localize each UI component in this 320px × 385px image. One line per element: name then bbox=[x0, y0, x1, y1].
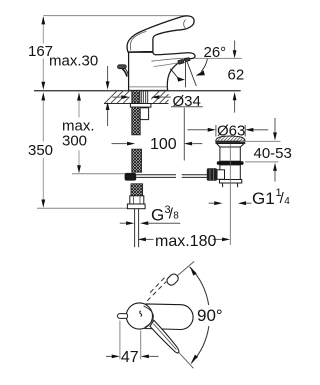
deck underside line bbox=[104, 103, 169, 105]
waste lower body bbox=[220, 165, 240, 180]
pop-up rod guide block bbox=[140, 108, 148, 120]
47 extension lines bbox=[119, 321, 121, 360]
svg-text:G: G bbox=[151, 206, 164, 225]
hose end nut bbox=[127, 204, 145, 209]
flexible hose lower segment bbox=[131, 184, 143, 196]
drain centerline bbox=[229, 144, 231, 245]
max.300 dimension line with arrows bbox=[78, 101, 80, 118]
spout interior highlight lines bbox=[152, 58, 188, 61]
26 deg arc left segment with arrowhead bbox=[170, 69, 177, 78]
max.180 dimension line with arrows bbox=[138, 238, 146, 242]
lever inner highlight bbox=[130, 31, 146, 50]
G1 1/4 dimension arrows bbox=[209, 202, 215, 204]
svg-text:Ø63: Ø63 bbox=[217, 123, 245, 140]
faucet body and spout silhouette bbox=[129, 52, 195, 90]
blade direction extension line bbox=[179, 353, 194, 369]
waste o-ring bbox=[217, 161, 244, 165]
paddle neck inner arc (lever base) bbox=[144, 306, 154, 327]
extension line under 26 deg for 62 dim bbox=[195, 57, 242, 59]
mounting hole gap in deck bbox=[130, 90, 152, 104]
350 bottom extension line bbox=[37, 207, 127, 209]
deck hatching bbox=[105, 91, 169, 103]
deck top line bbox=[34, 90, 241, 92]
40-53 extension lines bbox=[240, 140, 281, 142]
locknut under deck bbox=[130, 104, 151, 108]
100 dimension line with arrows bbox=[112, 143, 127, 145]
O34 dimension arrows bbox=[112, 96, 121, 98]
90 deg swing arc bbox=[190, 267, 209, 305]
shank washer lines bbox=[141, 91, 147, 103]
aerator bbox=[178, 59, 184, 64]
rod knurled nut bbox=[207, 168, 217, 181]
max.30 dimension arrows bbox=[107, 66, 109, 82]
350 dimension vertical line with arrows bbox=[42, 101, 44, 142]
threaded shank below bbox=[132, 107, 140, 135]
hose connection nut bbox=[130, 196, 144, 204]
open lever direction line bbox=[177, 261, 194, 276]
pop-up rod right segment bbox=[182, 174, 207, 176]
26 deg arc right segment with arrowhead bbox=[201, 59, 207, 72]
26 deg slanted spray line bbox=[187, 61, 196, 86]
waste neck bbox=[217, 144, 245, 148]
plan view lever blade closed position bbox=[150, 320, 179, 353]
wire top extension line from lever tip bbox=[43, 15, 187, 17]
62 dimension down arrow bbox=[234, 41, 236, 52]
svg-text:100: 100 bbox=[150, 136, 177, 153]
svg-text:350: 350 bbox=[28, 142, 53, 159]
167 dimension vertical line with arrows bbox=[42, 17, 44, 44]
pop-up knob on body left bbox=[118, 65, 127, 69]
threaded shank through deck bbox=[132, 91, 140, 104]
svg-text:8: 8 bbox=[173, 211, 179, 222]
plan view body circle bbox=[126, 303, 152, 329]
lever tip hook inner line bbox=[184, 20, 187, 29]
47 dimension arrows bbox=[106, 355, 112, 357]
rod side port bbox=[217, 170, 225, 180]
plan view pop-up stub bbox=[118, 314, 128, 319]
26 deg spray reference vertical line bbox=[185, 61, 187, 87]
svg-text:90°: 90° bbox=[197, 306, 223, 325]
waste bottom flange bbox=[220, 180, 242, 184]
svg-text:max.180: max.180 bbox=[155, 233, 216, 250]
svg-text:max.30: max.30 bbox=[49, 53, 98, 70]
max.300 extension line at hose end bbox=[72, 173, 125, 175]
open lever solid end cap bbox=[165, 272, 180, 287]
62 dimension up arrow bbox=[234, 100, 236, 113]
waste tailpipe bbox=[223, 183, 238, 187]
O63 dimension arrows bbox=[215, 125, 217, 137]
supply tube bbox=[134, 209, 136, 248]
waste flange rim bbox=[216, 141, 245, 143]
flexible hose upper segment bbox=[132, 149, 142, 172]
waste flange dome bbox=[216, 136, 245, 141]
G3/8 dimension arrows bbox=[120, 222, 126, 224]
spout axis extension line below deck bbox=[183, 108, 185, 161]
40-53 dimension arrows bbox=[274, 118, 276, 132]
svg-text:4: 4 bbox=[284, 196, 290, 207]
svg-text:62: 62 bbox=[228, 66, 245, 83]
pop-up rod left segment bbox=[136, 174, 176, 176]
svg-text:40-53: 40-53 bbox=[254, 145, 292, 162]
plan view spout paddle bbox=[145, 304, 193, 330]
base line bbox=[129, 86, 167, 88]
waste upper body bbox=[220, 147, 240, 161]
open lever dashed outline bbox=[147, 276, 166, 301]
plan view center mark bbox=[140, 311, 142, 316]
lever handle bbox=[127, 16, 194, 52]
svg-text:47: 47 bbox=[121, 349, 139, 366]
pop-up rod knob bbox=[125, 173, 137, 181]
svg-text:300: 300 bbox=[62, 132, 87, 149]
svg-text:G1: G1 bbox=[252, 189, 275, 208]
